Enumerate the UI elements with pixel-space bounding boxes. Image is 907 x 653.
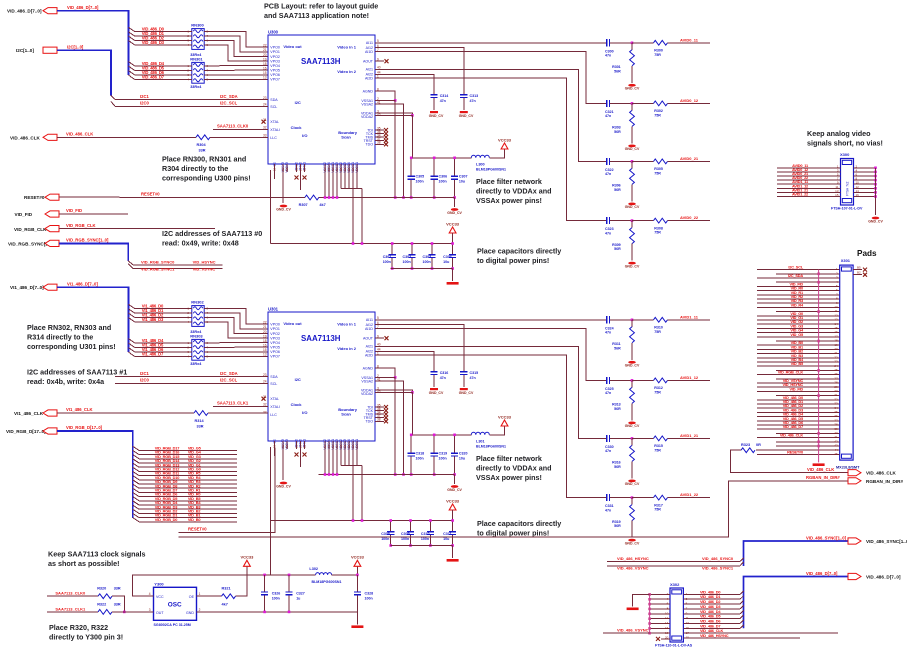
wire U300 AGND: [375, 91, 395, 100]
no-connect U301 TDO: [384, 419, 388, 423]
wire shunt top R313: [631, 380, 633, 387]
wire shunt top R316: [631, 438, 633, 445]
svg-text:100n: 100n: [272, 597, 280, 601]
svg-text:SG8002CA PC 31.25M: SG8002CA PC 31.25M: [154, 623, 191, 627]
no-connect U300 RTS1: [303, 176, 307, 180]
svg-text:13: 13: [263, 76, 267, 80]
svg-text:directly to VDDAx and: directly to VDDAx and: [476, 464, 551, 473]
ground X300: [872, 217, 880, 220]
inductor L301: [471, 432, 489, 435]
svg-text:I2C: I2C: [295, 100, 301, 105]
wire X301 row 23: [757, 361, 840, 363]
svg-text:VID_FID: VID_FID: [15, 212, 33, 217]
wire U301 AI22 to cap: [375, 351, 434, 359]
wire shunt top R309: [631, 221, 633, 228]
svg-text:100n: 100n: [423, 260, 431, 264]
wire U301 AGND: [375, 368, 395, 377]
no-connect U301 RTS1: [303, 453, 307, 457]
capacitor C309: [410, 521, 412, 546]
wire U301 VSSA3 gnd: [282, 449, 284, 480]
bus entry RGB_D0: [133, 518, 237, 522]
pin stub U301 TCK: [375, 410, 384, 412]
wire I2C SDA U300: [115, 99, 268, 101]
wire I2C SCL U301: [115, 382, 268, 384]
svg-text:Video in 2: Video in 2: [337, 346, 357, 351]
svg-text:XTALI: XTALI: [270, 128, 280, 132]
junction X300 3: [874, 175, 877, 178]
wire X301 row 22: [757, 357, 840, 359]
wire SAA7113_CLK to U301 XTALI: [213, 405, 268, 407]
ground bar digital U300: [447, 282, 459, 285]
svg-text:100n: 100n: [439, 180, 447, 184]
wire junction to R AVID0_11: [632, 42, 654, 44]
wire X300 row 4: [777, 179, 841, 181]
wire U300 VSS drop 333: [332, 172, 334, 198]
ground R301: [628, 84, 636, 87]
wire shunt bot R316: [631, 461, 633, 478]
wire X301 row 41: [757, 437, 840, 439]
svg-text:C302: C302: [403, 255, 412, 259]
svg-text:24: 24: [263, 380, 267, 384]
wire X301 row 15: [757, 327, 840, 329]
wire X301 row 21: [757, 353, 840, 355]
wire X301 row 27: [776, 378, 840, 380]
svg-text:SAA7113_CLK1: SAA7113_CLK1: [55, 606, 86, 611]
wire VID_486_D0 to RN300: [135, 31, 192, 33]
port arrow VID_486_CLK: [43, 134, 57, 140]
bus entry X302 3: [740, 596, 744, 599]
svg-text:56R: 56R: [614, 465, 621, 469]
wire RN300 out 1 to U300 VPO1: [204, 36, 268, 52]
wire X302 right 11: [683, 618, 740, 620]
wire I2C SCL U300: [115, 105, 268, 107]
wire X301 row 38: [757, 424, 840, 426]
svg-text:Place R320, R322: Place R320, R322: [49, 623, 108, 632]
svg-text:TDO: TDO: [365, 143, 373, 147]
junction C308 bot: [389, 544, 392, 547]
svg-text:C310: C310: [421, 532, 430, 536]
wire VID_486_HSYNC: [607, 561, 740, 563]
wire cap to junction AVID1_11: [613, 319, 633, 321]
svg-text:Scan: Scan: [341, 134, 351, 139]
svg-text:C319: C319: [439, 452, 448, 456]
rail VDDA U300: [411, 157, 471, 159]
svg-text:GND_CV: GND_CV: [625, 541, 640, 545]
bus VID_486_D out: [744, 577, 849, 629]
wire U300 AI11 row: [375, 42, 604, 44]
svg-text:21: 21: [263, 48, 267, 52]
wire X301 row 32: [757, 399, 840, 401]
junction C304 top: [451, 242, 454, 245]
svg-text:AI2D: AI2D: [365, 354, 373, 358]
no-connect U300 TDI: [384, 128, 388, 132]
svg-text:VID_VSYNC: VID_VSYNC: [193, 266, 216, 271]
svg-text:I2C_SCL: I2C_SCL: [788, 265, 803, 270]
resistor R302: [654, 101, 668, 106]
svg-text:Video in 2: Video in 2: [337, 69, 357, 74]
wire VI1_486_D2 to RN302: [135, 316, 192, 318]
svg-text:R304: R304: [197, 143, 207, 147]
svg-text:20: 20: [263, 53, 267, 57]
wire X301 row 18: [776, 340, 840, 342]
svg-text:OUT: OUT: [156, 611, 164, 615]
svg-text:FTSH 7x2: FTSH 7x2: [846, 181, 850, 196]
svg-text:56R: 56R: [614, 407, 621, 411]
svg-text:10u: 10u: [443, 537, 449, 541]
wire U301 AI21 feed: [375, 346, 604, 438]
svg-text:R307: R307: [299, 203, 308, 207]
wire X302 left 16: [650, 627, 670, 629]
svg-text:R322: R322: [97, 602, 106, 606]
bus entry X302 5: [740, 601, 744, 605]
pin stub U301 VDDD2: [340, 441, 342, 449]
ground filter U301: [451, 485, 459, 488]
wire X302 gnd: [633, 594, 650, 606]
svg-text:B5: B5: [857, 265, 861, 269]
svg-text:18: 18: [263, 62, 267, 66]
bus entry D1_5: [129, 343, 135, 347]
svg-text:C304: C304: [443, 255, 452, 259]
svg-text:Clock: Clock: [291, 402, 303, 407]
bus entry D1_0: [129, 304, 135, 308]
pin stub U300 VSSD1: [332, 164, 334, 172]
junction AVID1_12: [631, 379, 634, 382]
svg-text:56R: 56R: [614, 130, 621, 134]
svg-text:OE: OE: [189, 595, 195, 599]
svg-text:4: 4: [149, 592, 151, 596]
wire U301 AI2D feed: [375, 355, 604, 497]
wire I2C SDA U301: [115, 376, 268, 378]
svg-text:31: 31: [263, 118, 267, 122]
svg-text:GND_CV: GND_CV: [625, 424, 640, 428]
junction C306 bot: [433, 196, 436, 199]
wire X301 row 28: [757, 382, 840, 384]
wire VCC drop U301: [452, 510, 454, 521]
svg-text:VID_486_D7: VID_486_D7: [142, 75, 165, 80]
svg-text:100n: 100n: [403, 260, 411, 264]
wire X302 left 18: [650, 632, 670, 634]
pin stub U301 RTS1: [304, 441, 306, 449]
wire cap to junction AVID0_21: [613, 160, 633, 162]
wire X301 row 24: [757, 365, 840, 367]
svg-text:VID_RGB_D[17..0]: VID_RGB_D[17..0]: [66, 425, 103, 430]
wire X300 row 7: [777, 191, 841, 193]
capacitor C318: [410, 435, 412, 475]
wire U300 VSSA2: [375, 104, 404, 198]
svg-text:X300: X300: [840, 152, 850, 157]
svg-text:VID_486_D[7..0]: VID_486_D[7..0]: [67, 5, 99, 10]
wire RN302 out 3 to U301 VPO3: [204, 322, 268, 338]
inductor L302: [316, 573, 332, 575]
wire junction to R AVID0_21: [632, 160, 654, 162]
svg-text:VID_486_CLK: VID_486_CLK: [10, 136, 41, 141]
junction X302 6: [648, 622, 651, 625]
resistor R310: [654, 317, 668, 322]
svg-text:SDA: SDA: [270, 98, 278, 102]
svg-text:GND_CV: GND_CV: [447, 211, 462, 215]
wire shunt bot R306: [631, 184, 633, 201]
port arrow VID_486_SYNC: [848, 538, 861, 544]
wire X301 row 19: [757, 344, 840, 346]
capacitor C331: [604, 497, 613, 499]
junction C302 top: [411, 242, 414, 245]
junction rail U300 b: [361, 242, 364, 245]
svg-text:C308: C308: [381, 532, 390, 536]
bus entry D5: [129, 66, 135, 70]
svg-text:AI11: AI11: [366, 41, 373, 45]
wire X301 row 10: [757, 306, 840, 308]
wire X302 right 9: [683, 613, 740, 615]
wire X302 pin20 stub: [661, 638, 670, 640]
wire junction to R AVID1_12: [632, 379, 654, 381]
junction C319 bot: [433, 473, 436, 476]
svg-text:47n: 47n: [605, 231, 611, 235]
svg-text:I2C0: I2C0: [140, 378, 150, 383]
wire X302 left 4: [650, 598, 670, 600]
svg-text:18: 18: [665, 631, 669, 635]
svg-text:32: 32: [263, 126, 267, 130]
junction AGND U300: [394, 99, 397, 102]
svg-text:VID_486_D[7..0]: VID_486_D[7..0]: [7, 9, 42, 14]
svg-text:to digital power pins!: to digital power pins!: [477, 256, 549, 265]
svg-text:VID_FID: VID_FID: [66, 208, 82, 213]
port arrow VID_486_D out: [848, 573, 861, 579]
svg-text:LLC: LLC: [270, 413, 277, 417]
ground R306: [628, 203, 636, 206]
svg-text:FTSH-107-01-L-DV: FTSH-107-01-L-DV: [831, 206, 863, 210]
svg-text:VID_RGB_CLK: VID_RGB_CLK: [778, 370, 804, 375]
resistor R303: [630, 110, 635, 126]
svg-text:L302: L302: [309, 567, 318, 571]
svg-text:AVID0_11: AVID0_11: [680, 37, 699, 42]
pin stub U300 RTS1: [304, 164, 306, 172]
rail digital top U301: [270, 520, 452, 522]
junction C303 bot: [431, 267, 434, 270]
resistor network RN302 body: [192, 306, 204, 327]
svg-text:SAA7113_CLK0: SAA7113_CLK0: [217, 124, 249, 129]
wire X301 row 14: [757, 323, 840, 325]
svg-text:XTALI: XTALI: [270, 405, 280, 409]
junction C326 bot: [263, 611, 266, 614]
svg-text:AVID1_21: AVID1_21: [680, 433, 699, 438]
bus entry RGB_D2: [133, 509, 237, 513]
no-connect X301 1: [863, 273, 867, 277]
svg-text:AOUT: AOUT: [363, 60, 374, 64]
svg-text:47n: 47n: [605, 508, 611, 512]
port arrow VI1_486_D: [43, 284, 57, 290]
pin stub U301 VSSD2: [324, 441, 326, 449]
oscillator Y300 body: [154, 587, 197, 620]
junction rail C327: [288, 574, 291, 577]
junction C327 bot: [288, 611, 291, 614]
svg-text:C327: C327: [296, 591, 305, 595]
wire shunt bot R319: [631, 521, 633, 538]
wire U301 VSS drop 333: [332, 449, 334, 475]
wire U301 VSSA2: [375, 381, 404, 475]
bus entry HSYNC: [740, 558, 744, 562]
wire U300 VDD drop 345: [344, 172, 346, 189]
svg-text:20: 20: [263, 330, 267, 334]
wire junction to R AVID0_22: [632, 220, 654, 222]
svg-text:U301: U301: [268, 307, 279, 312]
svg-text:1: 1: [199, 592, 201, 596]
svg-text:Place capacitors directly: Place capacitors directly: [477, 519, 561, 528]
ground R309: [628, 262, 636, 265]
svg-text:TDO: TDO: [365, 420, 373, 424]
svg-text:MX23L8/SMT: MX23L8/SMT: [836, 465, 860, 469]
bus entry D2: [129, 36, 135, 40]
svg-text:AVID1_12: AVID1_12: [680, 375, 699, 380]
bus I2C: [57, 50, 111, 95]
wire U301 VDD drop 341: [340, 449, 342, 466]
svg-text:Scan: Scan: [341, 411, 351, 416]
svg-text:VID_486_CLK: VID_486_CLK: [807, 467, 834, 472]
svg-text:22: 22: [263, 321, 267, 325]
bus entry D4: [129, 62, 135, 66]
pin stub U300 VSSD3: [336, 164, 338, 172]
port arrow VID_RGB_D: [43, 428, 57, 434]
wire U301 pin353 drop: [352, 449, 354, 521]
wire RN303 out 3 to U301 VPO7: [204, 355, 268, 357]
wire VID_RGB_CLK: [59, 228, 215, 230]
rail VDDA U301: [411, 434, 471, 436]
junction X300 2: [874, 171, 877, 174]
svg-text:23: 23: [263, 96, 267, 100]
pin stub U301 VSSD3: [336, 441, 338, 449]
bus entry RGB_D9: [133, 480, 237, 484]
svg-text:directly to Y300 pin 3!: directly to Y300 pin 3!: [49, 633, 123, 642]
wire X301 row 9: [757, 302, 840, 304]
svg-text:1u: 1u: [296, 597, 300, 601]
wire X302 left 8: [650, 608, 670, 610]
no-connect U300 TRST: [384, 139, 388, 143]
capacitor C301: [391, 244, 393, 269]
pin stub U300 VDDD3: [344, 164, 346, 172]
wire R320 out: [112, 596, 124, 612]
wire RN301 out 0 to U300 VPO4: [204, 65, 268, 67]
svg-text:VID_486_SYNC0: VID_486_SYNC0: [702, 556, 734, 561]
svg-text:33R: 33R: [114, 602, 121, 606]
svg-text:GND_CV: GND_CV: [429, 391, 444, 395]
junction X301 43: [817, 445, 820, 448]
svg-text:VID_486_CLK: VID_486_CLK: [780, 433, 803, 438]
pin stub U300 TDO: [375, 143, 384, 145]
capacitor C300: [604, 42, 613, 44]
wire X300 stub 3: [854, 175, 876, 177]
wire X301 row 36: [757, 416, 840, 418]
junction U300 VSS 333: [332, 196, 335, 199]
svg-text:I2C_SDA: I2C_SDA: [788, 273, 803, 278]
svg-text:Y300: Y300: [154, 581, 164, 586]
svg-text:AGND: AGND: [363, 366, 374, 370]
svg-text:16: 16: [263, 344, 267, 348]
wire X301 row 34: [757, 407, 840, 409]
svg-text:I2C_SDA: I2C_SDA: [220, 94, 238, 99]
junction C309 top: [409, 519, 412, 522]
ground R311: [628, 361, 636, 364]
wire U300 pin353 drop: [352, 172, 354, 244]
svg-text:VPO6: VPO6: [270, 73, 280, 77]
svg-text:XTAL: XTAL: [270, 120, 279, 124]
wire U301 pin357 stub: [356, 449, 358, 466]
svg-text:16: 16: [665, 626, 669, 630]
svg-text:VPO2: VPO2: [270, 55, 280, 59]
wire VI1_486_D6 to RN303: [135, 351, 192, 353]
svg-text:VPO5: VPO5: [270, 346, 280, 350]
wire AVID1_12 out: [668, 379, 711, 381]
svg-text:AVID0_22: AVID0_22: [680, 215, 699, 220]
svg-text:VDDA2: VDDA2: [361, 392, 373, 396]
svg-text:VID_486_SYNC[1..0]: VID_486_SYNC[1..0]: [866, 539, 907, 544]
bus entry D1_6: [129, 348, 135, 352]
pin stub U300 VDDD1: [352, 164, 354, 172]
ground C314: [430, 111, 438, 113]
svg-text:33Rx4: 33Rx4: [190, 362, 202, 366]
bus VID_486_SYNC out: [744, 541, 849, 566]
svg-text:VID_486_VSYNC: VID_486_VSYNC: [617, 566, 649, 571]
wire U300 VSSA1: [375, 100, 395, 197]
svg-text:47n: 47n: [605, 391, 611, 395]
wire RN301 out 2 to U300 VPO6: [204, 74, 268, 76]
svg-text:RN300: RN300: [191, 23, 204, 28]
wire U300 AI21 feed: [375, 69, 604, 161]
junction rail U301 a: [352, 519, 355, 522]
svg-text:47n: 47n: [605, 331, 611, 335]
port arrow VID_RGB_CLK: [45, 226, 59, 232]
wire X302 left 10: [650, 613, 670, 615]
wire U300 AI2D feed: [375, 78, 604, 220]
svg-text:GND_CV: GND_CV: [625, 364, 640, 368]
no-connect U301 TMS: [384, 412, 388, 416]
pin stub U301 VDDD1: [352, 441, 354, 449]
junction X301 2: [817, 273, 820, 276]
svg-text:100n: 100n: [421, 537, 429, 541]
ground R316: [628, 480, 636, 483]
junction X301 40: [817, 432, 820, 435]
svg-text:100n: 100n: [401, 537, 409, 541]
bus entry SYNC0: [128, 261, 222, 265]
wire X301 row 43: [776, 445, 840, 447]
svg-text:VSSAx power pins!: VSSAx power pins!: [476, 196, 542, 205]
svg-text:VID_486_HSYNC: VID_486_HSYNC: [617, 556, 649, 561]
svg-text:GND_CV: GND_CV: [447, 488, 462, 492]
svg-text:100n: 100n: [365, 597, 373, 601]
wire VID_486_D1 to RN300: [135, 35, 192, 37]
resistor network RN301 body: [192, 62, 204, 83]
svg-text:to digital power pins!: to digital power pins!: [477, 529, 549, 538]
wire U300 AI22 to cap: [375, 74, 434, 82]
svg-text:VSSA2: VSSA2: [361, 379, 373, 383]
svg-text:directly to VDDAx and: directly to VDDAx and: [476, 187, 551, 196]
svg-text:GND_CV: GND_CV: [625, 205, 640, 209]
rail digital bottom U301: [391, 545, 453, 547]
pin stub U300 RTS0: [300, 164, 302, 172]
bus VID_RGB_D: [57, 431, 133, 518]
svg-text:I2C_SCL: I2C_SCL: [220, 378, 238, 383]
wire VI1_486_D0 to RN302: [135, 308, 192, 310]
svg-text:4k7: 4k7: [222, 602, 228, 606]
op-amp U300 SAA7113H body: [268, 35, 375, 164]
no-connect U301 TRST: [384, 416, 388, 420]
wire VID_486_VSYNC: [607, 565, 740, 567]
junction AVID0_22: [631, 219, 634, 222]
wire X301 row 26: [757, 374, 840, 376]
ground R303: [628, 145, 636, 148]
svg-text:VID_R4: VID_R4: [791, 302, 804, 307]
capacitor C305: [410, 158, 412, 198]
svg-text:VID_B0: VID_B0: [188, 517, 200, 522]
pin stub U300 TDI: [375, 129, 384, 131]
